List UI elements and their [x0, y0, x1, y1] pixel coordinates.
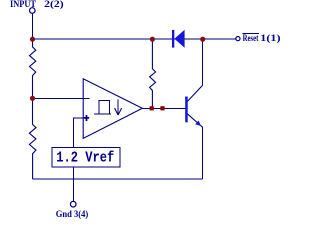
wire INPUT lead [32, 13, 34, 39]
wire collector to Reset rail [201, 39, 203, 86]
transistor Q1 emitter line [187, 114, 202, 127]
resistor R2 [29, 98, 36, 179]
wire emitter to GND rail [201, 126, 203, 179]
resistor R3 [150, 39, 156, 108]
node junction rail/collector [200, 37, 205, 42]
op-amp comparator U1 [83, 79, 142, 139]
transistor Q1 emitter arrow [195, 121, 201, 127]
svg-text:1.2 Vref: 1.2 Vref [56, 151, 114, 167]
diode D1 triangle [174, 30, 184, 48]
hysteresis arrow shaft [117, 99, 119, 114]
node junction output/base [160, 106, 164, 110]
hysteresis symbol [94, 100, 111, 114]
transistor Q1 base bar [185, 97, 188, 123]
svg-text:Gnd 3(4): Gnd 3(4) [56, 209, 89, 219]
plus sign noninverting [84, 115, 89, 121]
comparator output wire [142, 107, 185, 109]
terminal Reset 1 [236, 37, 240, 41]
diode D1 cathode bar [172, 30, 174, 48]
svg-text:2(2): 2(2) [44, 0, 63, 10]
transistor Q1 collector line [187, 86, 202, 102]
svg-text:Reset: Reset [243, 34, 259, 44]
terminal INPUT 2 [30, 8, 36, 14]
node junction rail/R3 [150, 37, 155, 42]
terminal Gnd 3 [70, 201, 76, 207]
node junction input/R1 [30, 37, 35, 42]
label Reset overline [242, 33, 258, 35]
wire Vref box to GND rail [72, 167, 74, 179]
node junction R1/R2 divider tap [30, 96, 35, 101]
resistor R1 [30, 39, 36, 98]
wire noninverting input [73, 117, 84, 119]
wire inverting input [33, 97, 90, 99]
hysteresis arrow head [115, 108, 122, 115]
wire Vref to comparator [72, 118, 74, 148]
node junction output/R3 [150, 106, 154, 110]
svg-text:1(1): 1(1) [260, 33, 280, 44]
wire GND pin lead [72, 179, 74, 201]
wire bottom rail GND [33, 178, 203, 180]
svg-text:INPUT: INPUT [10, 0, 37, 10]
voltage reference box [52, 148, 120, 168]
wire top rail VCC [33, 38, 236, 40]
